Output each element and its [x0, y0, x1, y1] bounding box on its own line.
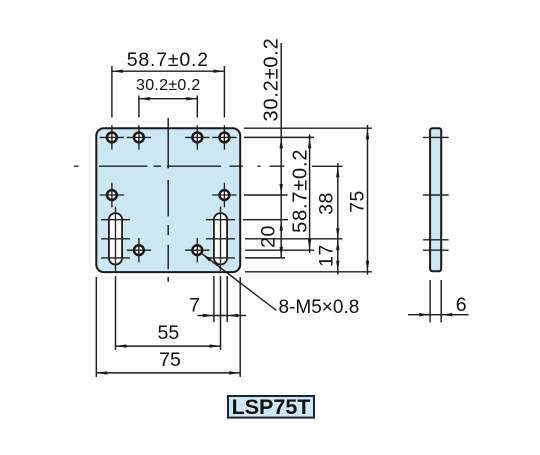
svg-text:7: 7 — [189, 294, 200, 316]
top dim extension line col C — [196, 96, 198, 118]
slot right outline — [214, 213, 227, 264]
svg-text:75: 75 — [347, 190, 369, 213]
svg-text:8-M5×0.8: 8-M5×0.8 — [279, 297, 360, 318]
right extension: plate top edge — [244, 127, 372, 129]
dim line 75 bottom — [96, 372, 240, 374]
svg-text:58.7±0.2: 58.7±0.2 — [290, 149, 312, 233]
right extension: plate bottom edge — [245, 271, 372, 273]
part label box LSP75T — [228, 396, 314, 418]
hole M5 #5 — [100, 183, 124, 207]
side view extension left — [429, 280, 431, 323]
hole M5 #7 — [127, 238, 151, 262]
side view plate body — [430, 128, 441, 271]
slot right tick middle — [206, 238, 235, 240]
dim line 58.7 top — [112, 70, 224, 72]
svg-text:58.7±0.2: 58.7±0.2 — [127, 49, 209, 71]
dim line 30.2 top — [139, 98, 197, 100]
bottom extension: slot right left edge — [213, 276, 215, 322]
horizontal centerline — [74, 165, 285, 167]
hole M5 #8 — [185, 238, 209, 262]
centerline extension for 38 dim — [312, 165, 343, 167]
hole M5 #6 — [212, 183, 236, 207]
svg-text:17: 17 — [316, 244, 338, 267]
slot left tick bottom arc center — [101, 257, 130, 259]
top dim extension line col B — [138, 96, 140, 118]
vertical dim line 38/17 right — [337, 163, 339, 275]
svg-text:30.2±0.2: 30.2±0.2 — [136, 77, 201, 94]
slot left tick top arc center — [101, 219, 130, 221]
svg-text:38: 38 — [316, 192, 338, 215]
top dim extension line col A — [111, 66, 113, 118]
slot left tick middle — [101, 238, 130, 240]
right extension: slot bottom arc — [245, 257, 285, 259]
svg-text:30.2±0.2: 30.2±0.2 — [261, 37, 283, 121]
side view tick row2 — [423, 194, 449, 196]
vertical dim line 30.2/20 right — [280, 43, 282, 258]
side view extension right — [440, 280, 442, 323]
vertical centerline — [167, 118, 169, 282]
side view tick row1 — [423, 136, 449, 138]
right extension: row3 — [245, 249, 314, 251]
svg-text:55: 55 — [158, 322, 180, 344]
bottom extension: slot left center — [115, 276, 117, 350]
slot left centerline vertical — [115, 207, 117, 272]
svg-text:75: 75 — [159, 349, 181, 371]
right extension: row2 — [244, 194, 288, 196]
vertical dim line 75 right — [367, 125, 369, 275]
side view tick slot — [423, 239, 449, 241]
dim line 55 — [116, 345, 221, 347]
bottom extension: plate left edge — [95, 277, 97, 377]
right extension: slot top arc — [243, 219, 288, 221]
slot right tick bottom arc center — [206, 257, 235, 259]
svg-text:20: 20 — [258, 225, 280, 248]
side view tick row3 — [423, 249, 449, 251]
vertical dim line 58.7 right — [309, 134, 311, 253]
right extension: slot middle — [245, 238, 343, 240]
svg-text:6: 6 — [456, 294, 467, 316]
leader line for 8-M5x0.8 — [201, 253, 276, 310]
right extension: row1 — [244, 136, 314, 138]
hole M5 #3 — [185, 125, 209, 149]
dim line 6 — [408, 314, 469, 316]
hole M5 #2 — [127, 125, 151, 149]
svg-text:LSP75T: LSP75T — [232, 395, 311, 419]
hole M5 #1 — [100, 125, 124, 149]
front view plate body — [96, 128, 240, 272]
bottom extension: slot right right edge — [226, 276, 228, 322]
hole M5 #4 — [212, 125, 236, 149]
top dim extension line col D — [223, 66, 225, 118]
dim line 7 (slot width) — [198, 315, 247, 317]
slot right tick top arc center — [206, 219, 235, 221]
bottom extension: slot right center — [220, 276, 222, 350]
slot right centerline vertical — [220, 207, 222, 272]
bottom extension: plate right edge — [239, 277, 241, 377]
slot left outline — [109, 213, 122, 264]
